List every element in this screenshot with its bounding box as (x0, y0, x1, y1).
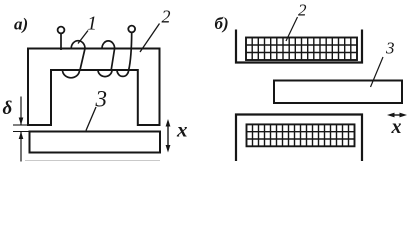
air gap dimension upper line with down arrow (20, 97, 22, 126)
svg-text:x: x (176, 118, 188, 142)
air gap dimension lower line with up arrow (20, 132, 22, 162)
lower coil winding cross-section grid (247, 124, 355, 146)
coil lead wire right (129, 33, 132, 70)
displacement double arrow x (right figure) (391, 114, 404, 116)
leader line for label 1 (78, 31, 88, 44)
leader line for label 3 (86, 107, 96, 131)
svg-text:δ: δ (3, 98, 13, 119)
svg-text:2: 2 (298, 1, 307, 20)
upper coil winding cross-section grid 2 (246, 38, 357, 61)
coil 1 upper turn arc 1 (71, 41, 85, 49)
stroke dimension double arrow x (left figure) (167, 123, 169, 149)
scan shadow line under plate (25, 160, 160, 162)
armature plate 3 (30, 132, 161, 153)
svg-text:а): а) (14, 15, 28, 34)
leader line for label 2 (right figure) (286, 17, 298, 41)
core U-shaped magnet yoke 2 (28, 49, 160, 126)
coil 1 lower turn arc A (63, 70, 80, 78)
air gap extension line (pole face) (13, 124, 28, 126)
svg-text:2: 2 (162, 7, 171, 27)
coil 1 lower turn arc B (98, 70, 112, 77)
coil turn diagonal 1 (80, 49, 85, 71)
upper core channel (cross-section) (236, 30, 362, 63)
leader line for label 3 (right figure) (371, 57, 384, 87)
svg-text:x: x (391, 116, 402, 138)
coil turn diagonal 2 (111, 49, 114, 71)
plunger plate 3 (right figure) (274, 81, 402, 104)
svg-text:1: 1 (87, 13, 97, 35)
coil 1 lower turn arc C (117, 70, 129, 76)
coil terminal left (58, 27, 65, 34)
svg-text:3: 3 (385, 39, 395, 58)
leader line for label 2 (140, 24, 160, 53)
coil terminal right (128, 26, 135, 33)
coil lead wire left (60, 34, 62, 50)
coil 1 upper turn arc 2 (102, 41, 115, 49)
lower core channel (cross-section) (236, 115, 362, 162)
air gap extension line (plate top) (13, 131, 30, 133)
svg-text:б): б) (215, 14, 229, 33)
